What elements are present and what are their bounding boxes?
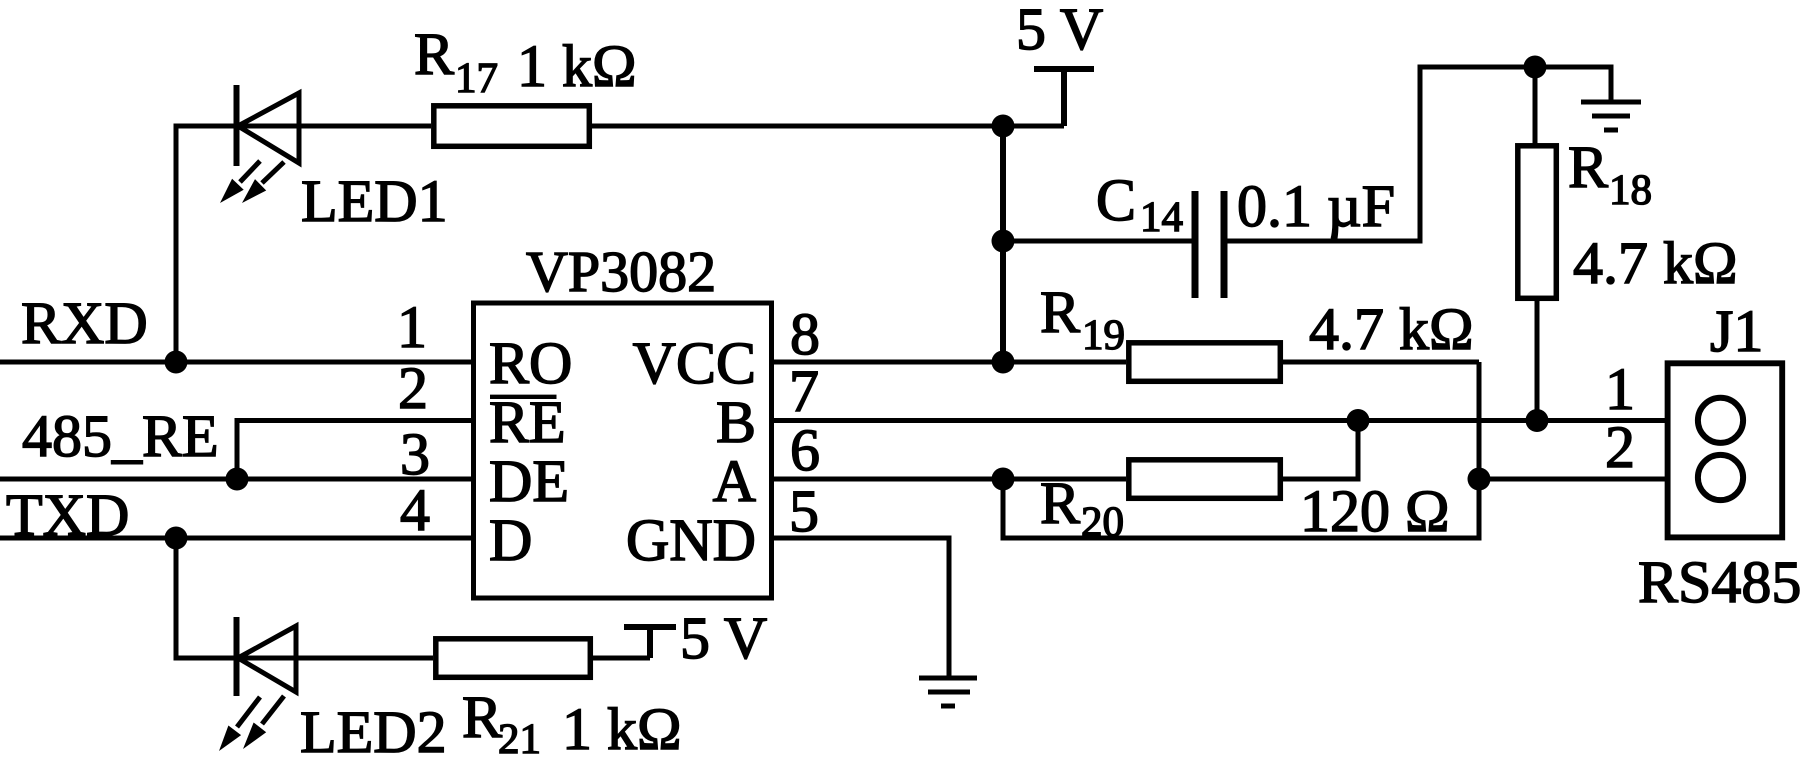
wire TXD net (pin 4 D)	[0, 536, 471, 541]
svg-text:LED2: LED2	[300, 699, 447, 765]
resistor R17	[434, 106, 590, 147]
svg-text:1: 1	[397, 294, 427, 360]
node junction C14 branch	[992, 230, 1015, 253]
node junction R20 to B	[1347, 409, 1370, 432]
wire pin 2 riser	[235, 418, 240, 479]
resistor R20	[1129, 460, 1281, 499]
svg-text:18: 18	[1609, 167, 1652, 214]
svg-text:R: R	[1040, 470, 1080, 536]
ground bottom	[919, 678, 977, 706]
wire ground net top horizontal	[1418, 65, 1612, 70]
resistor R19	[1129, 343, 1281, 382]
svg-text:2: 2	[1605, 414, 1635, 480]
capacitor C14	[1195, 191, 1224, 298]
svg-text:RXD: RXD	[21, 290, 148, 356]
wire R20 right lead	[1283, 477, 1358, 482]
wire 485_RE net (pin 3 DE)	[0, 477, 471, 482]
svg-text:4.7 kΩ: 4.7 kΩ	[1573, 230, 1738, 296]
ground top right	[1581, 65, 1641, 131]
wire pin 8 VCC	[771, 360, 1003, 365]
svg-text:GND: GND	[626, 507, 756, 573]
svg-text:5 V: 5 V	[1016, 0, 1103, 62]
wire to C14 left plate	[1003, 239, 1195, 244]
connector J1	[1668, 363, 1783, 537]
node junction pin 8	[992, 351, 1015, 374]
IC U1 VP3082	[474, 303, 772, 598]
label R18	[1568, 134, 1652, 214]
svg-text:RO: RO	[489, 330, 572, 396]
node junction pin 6	[992, 468, 1015, 491]
node junction top wire	[992, 115, 1015, 138]
svg-text:17: 17	[455, 55, 498, 102]
wire R19 left lead	[1003, 360, 1126, 365]
svg-text:RS485: RS485	[1638, 549, 1800, 615]
svg-text:VP3082: VP3082	[526, 239, 716, 304]
svg-text:14: 14	[1140, 194, 1183, 241]
svg-text:R: R	[1568, 134, 1608, 200]
svg-text:1: 1	[1605, 356, 1635, 422]
wire R20 left lead	[1003, 477, 1126, 482]
wire R18 bottom lead	[1535, 298, 1540, 421]
svg-text:R: R	[1040, 279, 1080, 345]
label R19	[1040, 279, 1125, 359]
wire pin 7 B net	[771, 418, 1667, 423]
svg-text:7: 7	[789, 358, 819, 424]
wire R21 to 5V	[590, 656, 650, 661]
svg-text:19: 19	[1082, 312, 1125, 359]
svg-text:R: R	[462, 684, 502, 750]
svg-text:VCC: VCC	[633, 330, 756, 396]
node 485_RE junction	[226, 468, 249, 491]
svg-text:J1: J1	[1710, 298, 1763, 364]
svg-text:120 Ω: 120 Ω	[1300, 478, 1450, 544]
wire LED1 riser	[174, 124, 179, 363]
svg-text:R: R	[414, 21, 454, 87]
node RXD junction	[165, 351, 188, 374]
svg-text:5 V: 5 V	[680, 605, 767, 671]
LED LED1	[220, 85, 299, 203]
wire A jog down	[1001, 479, 1006, 538]
wire R19 right lead	[1283, 360, 1479, 365]
svg-text:LED1: LED1	[301, 168, 448, 234]
wire pin 2 RE	[235, 418, 472, 423]
svg-text:5: 5	[789, 478, 819, 544]
wire LED2 dropper	[174, 538, 179, 661]
label R21 1 kOhm	[462, 684, 682, 763]
wire RXD net (pin 1 RO)	[0, 360, 471, 365]
power 5V bottom	[624, 627, 676, 658]
svg-text:6: 6	[790, 417, 820, 483]
svg-text:B: B	[716, 389, 756, 455]
wire pin 6 A net	[771, 477, 1003, 482]
node TXD junction	[165, 527, 188, 550]
wire through LED2 to R21	[174, 656, 434, 661]
LED LED2	[219, 617, 296, 751]
wire to J1 pin 2	[1479, 477, 1667, 482]
wire pin 5 GND	[771, 536, 949, 541]
wire GND dropper	[947, 536, 952, 679]
wire A jog horizontal	[1001, 536, 1482, 541]
wire R18 top lead	[1533, 67, 1538, 145]
svg-text:485_RE: 485_RE	[22, 403, 219, 469]
svg-text:0.1 µF: 0.1 µF	[1237, 173, 1395, 239]
svg-text:1 kΩ: 1 kΩ	[517, 33, 637, 99]
resistor R18	[1518, 146, 1557, 298]
pin label RE with overline	[489, 389, 566, 455]
svg-text:A: A	[713, 448, 756, 514]
svg-text:2: 2	[398, 355, 428, 421]
power 5V top	[1034, 69, 1094, 126]
resistor R21	[436, 639, 591, 678]
node junction J1 pin2 branch	[1468, 468, 1491, 491]
wire C14 right plate to ground net	[1224, 239, 1420, 244]
node junction R18 top	[1524, 56, 1547, 79]
node junction R18 to B	[1526, 409, 1549, 432]
label R20	[1040, 470, 1124, 546]
wire ground net riser	[1418, 67, 1423, 244]
wire vcc rail vertical	[1000, 126, 1006, 362]
svg-text:D: D	[489, 507, 532, 573]
svg-text:21: 21	[498, 716, 541, 763]
wire right vertical R19 to A jog	[1477, 362, 1482, 538]
svg-text:C: C	[1096, 167, 1136, 233]
wire through LED1 to R17	[174, 124, 432, 129]
wire R17 to 5V rail	[592, 124, 1064, 129]
svg-text:4: 4	[400, 477, 430, 543]
label R17 1 kOhm	[414, 21, 637, 102]
svg-text:RE: RE	[489, 389, 566, 455]
svg-text:1 kΩ: 1 kΩ	[562, 696, 682, 762]
svg-text:4.7 kΩ: 4.7 kΩ	[1309, 296, 1474, 362]
label C14	[1096, 167, 1183, 241]
svg-text:DE: DE	[489, 448, 569, 514]
wire R20 riser to B	[1356, 421, 1361, 482]
